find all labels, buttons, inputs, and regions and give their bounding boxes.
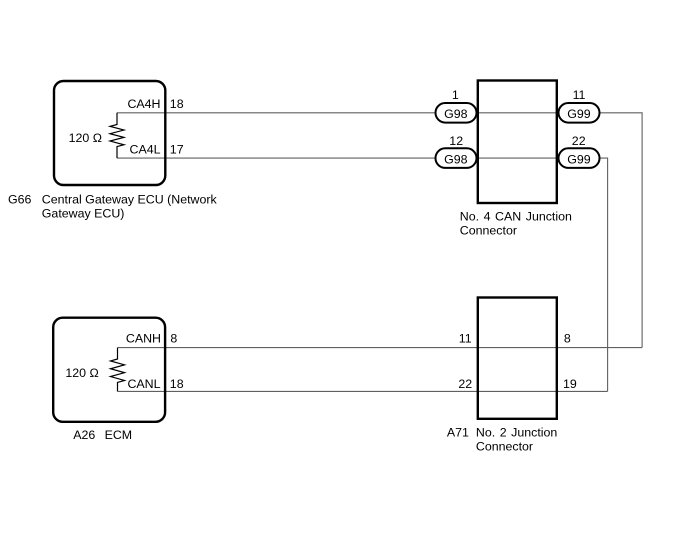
svg-text:1: 1	[452, 88, 459, 102]
svg-text:No. 2 Junction: No. 2 Junction	[476, 426, 558, 440]
svg-text:Central Gateway ECU (Network: Central Gateway ECU (Network	[42, 192, 218, 206]
svg-text:G98: G98	[444, 107, 468, 121]
svg-text:18: 18	[170, 377, 184, 391]
svg-text:17: 17	[170, 143, 184, 157]
svg-text:G99: G99	[567, 107, 591, 121]
svg-text:CANH: CANH	[126, 331, 161, 345]
svg-text:A71: A71	[447, 426, 469, 440]
svg-text:11: 11	[573, 88, 586, 102]
svg-text:CA4L: CA4L	[130, 143, 161, 157]
svg-text:Connector: Connector	[476, 440, 533, 454]
svg-text:CANL: CANL	[127, 377, 160, 391]
svg-text:12: 12	[449, 134, 463, 148]
svg-text:G98: G98	[444, 152, 468, 166]
svg-text:G99: G99	[567, 152, 591, 166]
svg-text:CA4H: CA4H	[127, 97, 160, 111]
svg-text:120 Ω: 120 Ω	[69, 131, 102, 145]
svg-text:G66: G66	[8, 192, 32, 206]
svg-text:8: 8	[564, 331, 571, 345]
svg-text:11: 11	[459, 331, 472, 345]
svg-text:ECM: ECM	[105, 428, 133, 442]
svg-text:18: 18	[170, 97, 184, 111]
svg-text:Connector: Connector	[460, 223, 517, 237]
svg-text:No. 4 CAN Junction: No. 4 CAN Junction	[460, 210, 572, 224]
svg-text:Gateway ECU): Gateway ECU)	[42, 206, 125, 220]
svg-text:A26: A26	[73, 428, 95, 442]
svg-text:120 Ω: 120 Ω	[65, 366, 98, 380]
svg-text:22: 22	[458, 377, 472, 391]
svg-text:22: 22	[572, 134, 586, 148]
svg-text:19: 19	[563, 377, 577, 391]
svg-text:8: 8	[170, 331, 177, 345]
